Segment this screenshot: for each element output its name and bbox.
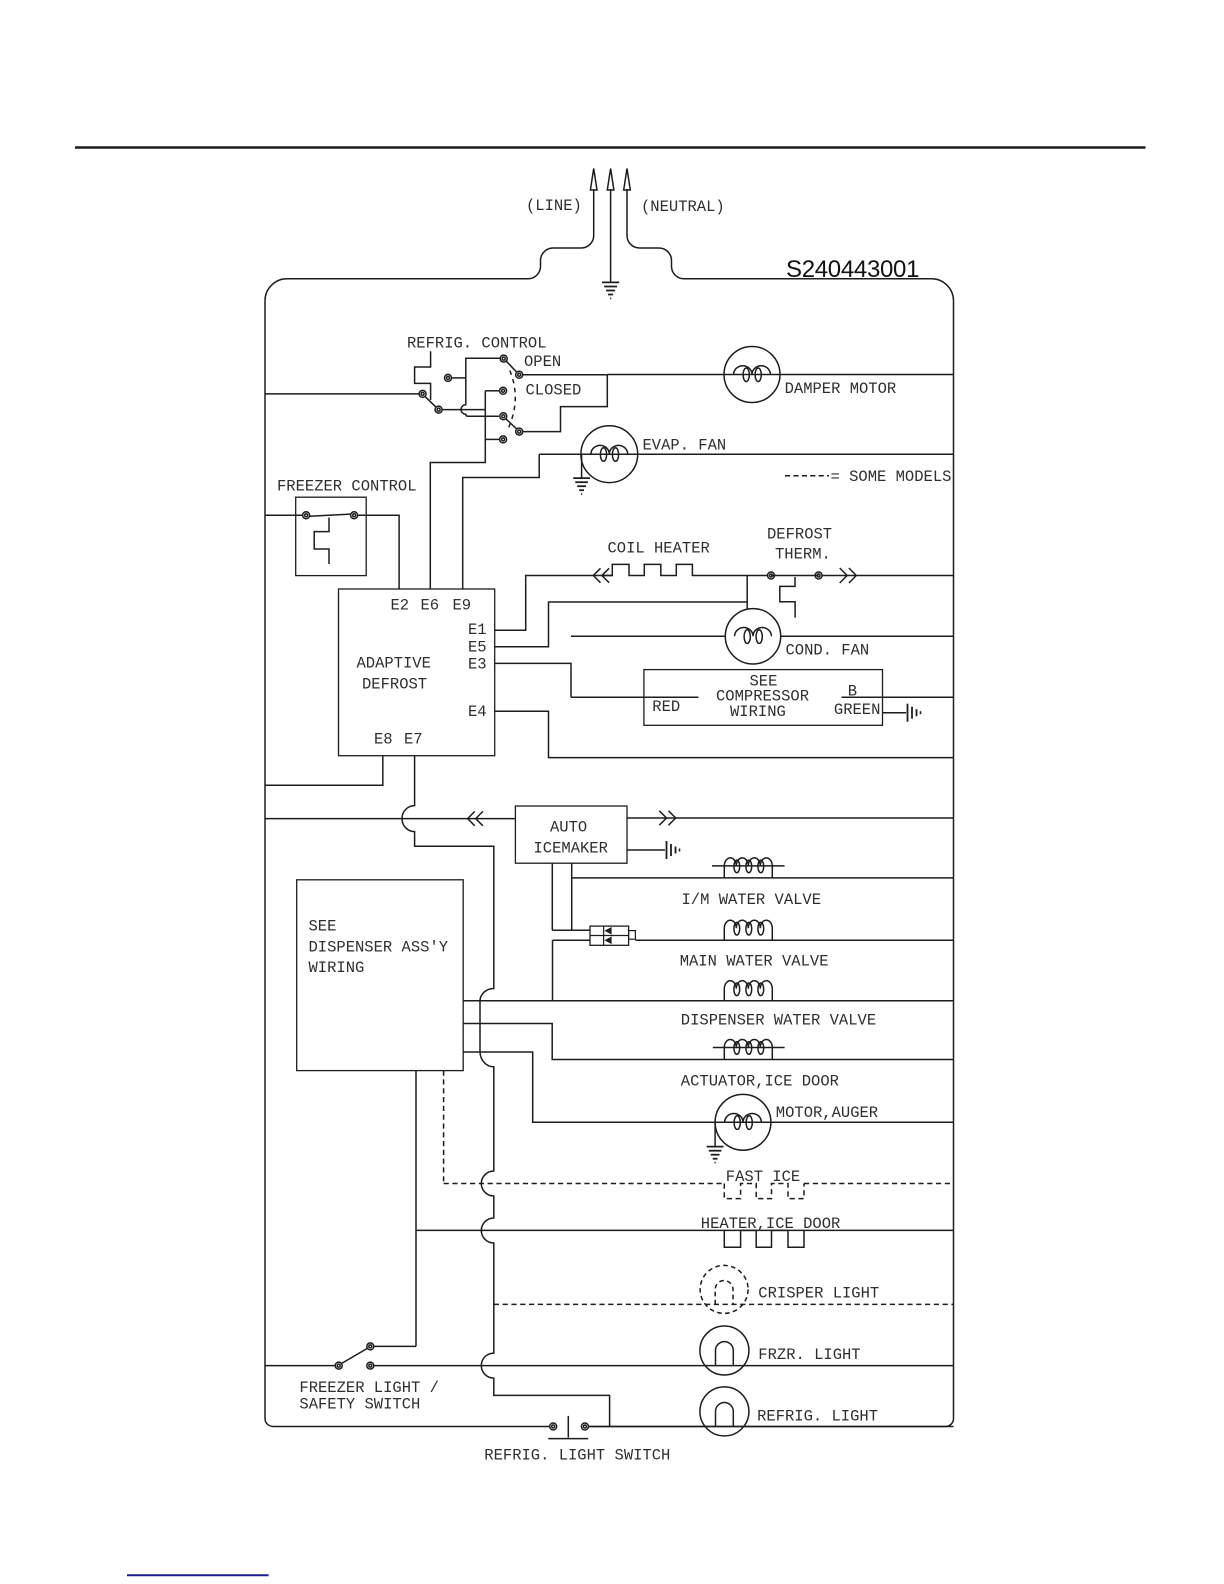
terminal: refrig control arm end <box>435 406 442 413</box>
svg-text:ACTUATOR,ICE DOOR: ACTUATOR,ICE DOOR <box>681 1073 839 1091</box>
svg-text:DEFROST: DEFROST <box>767 526 832 544</box>
svg-text:EVAP. FAN: EVAP. FAN <box>643 437 727 455</box>
wire: red lead into compressor box <box>571 696 698 698</box>
wire: dispenser box to actuator row <box>463 1024 953 1060</box>
wire: arm end to bus x485 <box>442 409 485 411</box>
ground (mains plug) <box>602 189 619 298</box>
actuator ice door coil <box>724 1040 772 1060</box>
defrost thermostat zigzag <box>780 577 795 618</box>
svg-text:DEFROST: DEFROST <box>362 676 427 694</box>
svg-text:OPEN: OPEN <box>524 353 561 371</box>
refrig light switch bar <box>548 1438 588 1440</box>
svg-text:DISPENSER ASS'Y: DISPENSER ASS'Y <box>309 939 449 957</box>
svg-text:FRZR. LIGHT: FRZR. LIGHT <box>758 1346 860 1364</box>
svg-text:CRISPER LIGHT: CRISPER LIGHT <box>758 1285 879 1303</box>
wire: green lead <box>883 712 907 714</box>
svg-text:RED: RED <box>652 698 680 716</box>
wire: main water valve row <box>635 939 953 941</box>
svg-text:REFRIG. CONTROL: REFRIG. CONTROL <box>407 335 547 353</box>
wire: pin E5 to defrost therm node <box>495 602 748 647</box>
svg-text:MOTOR,AUGER: MOTOR,AUGER <box>776 1104 878 1122</box>
ground (motor auger) <box>707 1122 724 1162</box>
svg-text:MAIN WATER VALVE: MAIN WATER VALVE <box>680 953 829 971</box>
wire: B lead to right rail <box>842 696 954 698</box>
svg-text:S240443001: S240443001 <box>786 256 919 283</box>
svg-text:FAST ICE: FAST ICE <box>726 1168 800 1186</box>
svg-text:WIRING: WIRING <box>309 959 365 977</box>
wire: neutral prong to top edge right shoulder <box>627 189 954 301</box>
terminal: closed contact top <box>500 413 507 420</box>
switch arm open <box>506 361 516 372</box>
coil heater element (square wave up) <box>603 564 768 575</box>
wire: defrost therm to chevrons <box>822 575 953 577</box>
svg-text:E1: E1 <box>468 621 487 639</box>
dispenser assembly box <box>297 880 464 1071</box>
actuator coil core line <box>713 1047 785 1049</box>
wire: cond fan row left <box>571 635 725 637</box>
svg-text:REFRIG. LIGHT SWITCH: REFRIG. LIGHT SWITCH <box>484 1447 670 1465</box>
wire: mid contact to bus x485 <box>485 390 499 392</box>
motor auger <box>715 1094 771 1150</box>
freezer control switch arm <box>310 514 351 516</box>
wire: frzr light row right <box>374 1365 954 1367</box>
svg-text:WIRING: WIRING <box>730 703 786 721</box>
wire: closed contact to damper node <box>523 375 608 432</box>
svg-text:E7: E7 <box>404 731 423 749</box>
terminal: defrost therm right <box>815 572 822 579</box>
I/M water valve core line <box>712 865 785 867</box>
connector chevrons >> (defrost therm right) <box>840 568 857 583</box>
refrig light switch terminals <box>550 1423 557 1430</box>
svg-text:DISPENSER WATER VALVE: DISPENSER WATER VALVE <box>681 1012 876 1030</box>
wire: pin E4 to right rail <box>495 711 954 757</box>
svg-text:COIL HEATER: COIL HEATER <box>608 540 710 558</box>
svg-text:ICEMAKER: ICEMAKER <box>534 840 608 858</box>
wire: pin E8 to left rail <box>265 756 383 786</box>
cond fan coil <box>735 627 772 636</box>
dispenser water valve coil <box>724 981 772 1001</box>
svg-text:I/M WATER VALVE: I/M WATER VALVE <box>682 891 822 909</box>
main water valve coil <box>724 920 772 940</box>
terminal: open contact top <box>500 355 507 362</box>
refrig control pivot bracket <box>415 351 431 400</box>
wire: pin E1 to coil heater <box>495 576 613 631</box>
svg-text:SAFETY SWITCH: SAFETY SWITCH <box>299 1396 420 1414</box>
wire: icemaker out to right rail <box>627 817 954 819</box>
svg-text:= SOME MODELS: = SOME MODELS <box>831 468 952 486</box>
svg-text:CLOSED: CLOSED <box>526 382 582 400</box>
motor auger coil <box>725 1114 762 1123</box>
svg-text:DAMPER MOTOR: DAMPER MOTOR <box>785 380 897 398</box>
connector chevrons << (coil heater left) <box>593 568 609 582</box>
wire: left rail to auto icemaker <box>265 818 515 820</box>
evap fan coil <box>591 445 628 454</box>
terminal: freezer control right <box>351 512 358 519</box>
fast ice element (dashed square wave down) <box>724 1184 804 1199</box>
terminal: defrost therm left <box>768 572 775 579</box>
evap fan motor <box>581 426 638 483</box>
damper motor coil <box>734 366 771 375</box>
wire: line prong to top edge left shoulder <box>265 189 594 301</box>
legend dashes <box>785 475 829 477</box>
dashed travel arc <box>508 371 515 429</box>
frzr light bulb <box>700 1326 749 1375</box>
plug prong NEUTRAL <box>624 169 631 191</box>
terminal: open contact moving end <box>516 371 523 378</box>
wire: right rail <box>589 301 953 1427</box>
compressor box <box>644 670 883 726</box>
svg-text:E2: E2 <box>391 597 410 615</box>
svg-text:ADAPTIVE: ADAPTIVE <box>357 655 431 673</box>
plug prong center (ground) <box>607 169 614 191</box>
wire: bottom contact to bus x485 <box>485 438 499 440</box>
svg-text:(LINE): (LINE) <box>526 197 582 215</box>
svg-text:E5: E5 <box>468 639 487 657</box>
terminal: safety switch right <box>367 1362 374 1369</box>
terminal: refrig control aux left <box>445 374 452 381</box>
connector chevrons >> (icemaker out) <box>659 811 675 825</box>
I/M water valve coil <box>724 858 772 878</box>
water valve body <box>590 926 635 945</box>
wire: icemaker pin B down to valve inlet <box>571 863 573 930</box>
wire: pin E7 down with hop over icemaker feed <box>402 756 610 1427</box>
svg-text:E9: E9 <box>453 597 472 615</box>
refrig light bulb <box>700 1387 749 1436</box>
damper motor M1 <box>724 347 780 403</box>
svg-text:THERM.: THERM. <box>775 546 831 564</box>
wire: dispenser box to motor auger row <box>463 1052 953 1122</box>
wire: valve inlet top <box>552 929 590 931</box>
heater ice door element (square wave down) <box>724 1230 804 1247</box>
wire: left rail to refrig control common terminal <box>265 393 419 395</box>
wire: evap fan row <box>539 453 953 455</box>
connector chevrons << (icemaker feed) <box>468 811 483 825</box>
ground (evap fan) <box>573 454 590 494</box>
wire: dispenser water valve row <box>463 1000 953 1002</box>
refrig control switch arm (common) <box>426 397 436 407</box>
svg-text:E3: E3 <box>468 656 487 674</box>
wire: I/M water valve row <box>572 877 954 879</box>
wire: frzr light row left <box>265 1365 335 1367</box>
terminal: closed contact moving end <box>516 428 523 435</box>
svg-text:E4: E4 <box>468 703 487 721</box>
wire: dispenser box down to safety switch (solid) <box>415 1071 417 1347</box>
refrig light filament <box>716 1403 734 1427</box>
svg-text:FREEZER CONTROL: FREEZER CONTROL <box>277 478 417 496</box>
wire: defrost node riser to cond fan <box>746 576 748 610</box>
safety switch arm <box>342 1348 368 1363</box>
wire: safety switch upper to dispenser column <box>374 1345 416 1347</box>
wire: refrig light row segment <box>588 1426 953 1428</box>
terminal: safety switch left <box>335 1362 342 1369</box>
svg-text:(NEUTRAL): (NEUTRAL) <box>641 198 725 216</box>
svg-text:SEE: SEE <box>309 918 337 936</box>
svg-text:COND. FAN: COND. FAN <box>786 642 870 660</box>
wire: dispenser box down to fast ice (dashed) <box>443 1071 445 1184</box>
terminal: safety switch upper <box>367 1343 374 1350</box>
svg-text:FREEZER LIGHT /: FREEZER LIGHT / <box>299 1379 439 1397</box>
wire: icemaker ground lead <box>627 849 665 851</box>
wire: x466 riser with hop over arm wire <box>461 358 500 416</box>
frzr light filament <box>716 1342 734 1366</box>
terminal: mid contact <box>500 387 507 394</box>
wire: crisper light row (dashed) <box>494 1303 954 1305</box>
wire: icemaker pin A down to valve inlet <box>551 863 553 930</box>
cond fan motor <box>725 609 780 664</box>
wire: left rail to freezer control <box>265 514 303 516</box>
svg-text:E8: E8 <box>374 731 393 749</box>
svg-text:REFRIG. LIGHT: REFRIG. LIGHT <box>757 1407 878 1425</box>
ground (icemaker) <box>667 841 680 859</box>
wire: cond fan row right <box>781 635 954 637</box>
defrost thermostat arm <box>771 575 819 577</box>
crisper light bulb (dashed) <box>700 1265 748 1313</box>
refrig light switch plunger <box>567 1416 569 1438</box>
svg-text:E6: E6 <box>421 597 440 615</box>
terminal: refrig control common left <box>419 390 426 397</box>
footer blue line <box>127 1574 269 1576</box>
wire: freezer control to E2 <box>358 515 400 589</box>
top rule <box>75 146 1146 148</box>
wire: aux terminal to x466 riser <box>452 377 466 379</box>
wire: heater ice door row <box>416 1229 954 1231</box>
wire: damper motor row <box>607 374 953 376</box>
ground (green lead) <box>908 704 921 722</box>
svg-text:AUTO: AUTO <box>550 819 587 837</box>
wire: left rail <box>265 301 550 1427</box>
wire: fast ice row (dashed) <box>444 1183 954 1185</box>
switch arm closed <box>506 419 517 429</box>
svg-text:B: B <box>848 683 857 701</box>
freezer control thermostat zigzag <box>314 518 329 565</box>
wire: open contact to damper node <box>523 374 608 376</box>
wire: pin E3 to cond fan / compressor red <box>495 663 571 697</box>
svg-text:GREEN: GREEN <box>834 701 881 719</box>
wire: bus x485 down to E6 riser <box>430 391 485 589</box>
wire: main valve feed from dispenser net <box>553 940 591 1001</box>
wire: pin E9 riser to evap row <box>463 454 540 589</box>
freezer control box <box>296 497 367 575</box>
plug prong LINE <box>590 169 597 191</box>
adaptive defrost board box <box>339 589 495 756</box>
auto icemaker box <box>515 806 627 863</box>
terminal: freezer control left <box>303 512 310 519</box>
svg-text:HEATER,ICE DOOR: HEATER,ICE DOOR <box>701 1215 841 1233</box>
terminal: bottom contact <box>500 436 507 443</box>
